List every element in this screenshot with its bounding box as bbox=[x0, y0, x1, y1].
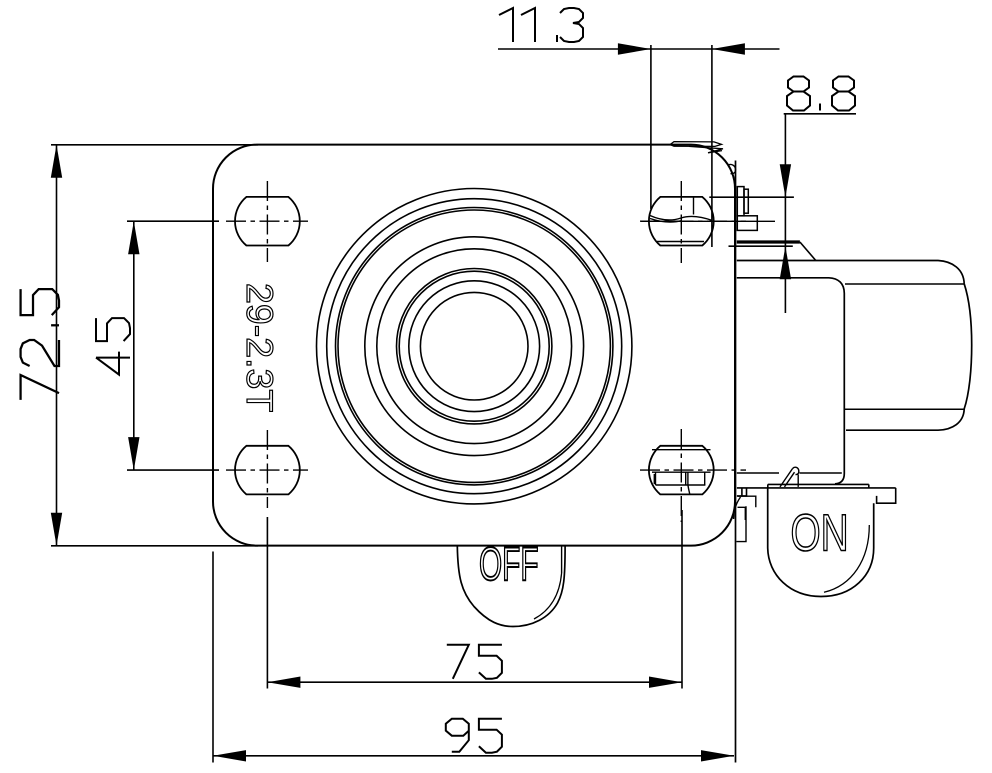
brake housing / fork leg (side view) bbox=[737, 278, 845, 484]
dimension 75 (bottom) bbox=[267, 510, 682, 689]
OFF pedal (bottom centre, behind plate) bbox=[457, 546, 565, 627]
OFF pedal right double edge bbox=[561, 546, 563, 574]
fork leg bottom hem line bbox=[737, 472, 779, 474]
chamfer to wheel top bbox=[800, 242, 816, 261]
text 11.3 bbox=[499, 8, 583, 42]
svg-text:OFF: OFF bbox=[479, 538, 539, 591]
text 75 bbox=[447, 645, 502, 679]
brake arm seen through top-right hole bbox=[641, 198, 775, 242]
svg-text:ON: ON bbox=[791, 503, 849, 562]
bolt hole bottom-right bbox=[649, 446, 714, 495]
text 45 (rotated) bbox=[96, 318, 130, 375]
dimension 72.5 (left) bbox=[51, 145, 258, 546]
wheel tread shoulder lines bbox=[845, 283, 964, 285]
OFF pedal inner echo line bbox=[534, 573, 562, 619]
dimension 95 (bottom) bbox=[213, 552, 734, 763]
wheel bottom edge bbox=[846, 409, 964, 430]
ON pedal label bbox=[791, 503, 849, 562]
steps under plate bottom-right corner bbox=[734, 496, 756, 520]
ON pedal mounting plate bbox=[737, 484, 896, 503]
center mark bottom-right hole bbox=[640, 469, 746, 471]
bolt hole top-right bbox=[649, 197, 714, 246]
side view: plate edge vertical line bbox=[735, 161, 737, 763]
text 8.8 bbox=[787, 77, 855, 111]
mounting plate (top view, rounded rectangle 95x72.5) bbox=[213, 145, 735, 546]
center mark top-right hole bbox=[640, 220, 746, 222]
center mark bottom-left hole bbox=[226, 469, 308, 471]
ON pedal body bbox=[768, 488, 874, 597]
release pin / flag on fork bottom bbox=[780, 467, 799, 487]
text 95 bbox=[446, 719, 502, 753]
cast text 29-2.3T on plate bbox=[239, 283, 281, 412]
brake parts seen through bottom-right hole bbox=[652, 450, 711, 495]
swivel raceway concentric circles bbox=[317, 189, 632, 504]
center mark top-left hole bbox=[226, 220, 308, 222]
bolt hole bottom-left bbox=[235, 446, 300, 495]
dimension 11.3 (top) bbox=[498, 45, 780, 247]
bolt hole top-left bbox=[235, 197, 300, 246]
svg-text:29-2.3T: 29-2.3T bbox=[239, 283, 281, 412]
wheel right edge (barrel bulge) bbox=[964, 284, 972, 409]
ON pedal inner echo line bbox=[824, 525, 869, 592]
OFF pedal label bbox=[479, 538, 539, 591]
dimension 8.8 (top right) bbox=[709, 114, 856, 313]
dimension 45 (left inner) bbox=[127, 221, 219, 470]
washer lines bbox=[737, 240, 800, 242]
text 72.5 (rotated) bbox=[21, 289, 59, 400]
kingpin nut stack (side view) bbox=[737, 187, 757, 231]
wheel (side view) top edge bbox=[737, 261, 964, 284]
spring clip tab at plate top edge bbox=[670, 142, 736, 174]
ON pedal left tab bbox=[736, 506, 746, 541]
